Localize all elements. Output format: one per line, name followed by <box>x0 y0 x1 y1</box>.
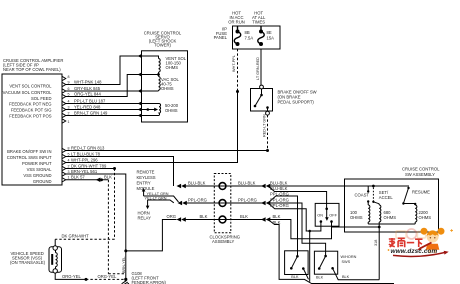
wire brake switch output <box>267 108 269 112</box>
wire ORG-YEL 844 pin5 to servo <box>66 75 142 97</box>
fuse F2 element <box>258 26 264 44</box>
switch COAST contacts <box>367 186 369 192</box>
svg-text:FEEDBACK POT POS: FEEDBACK POT POS <box>9 114 51 119</box>
pin 6 amp <box>62 89 66 93</box>
pin 9 amp <box>62 82 66 86</box>
svg-text:RESUME: RESUME <box>412 190 430 195</box>
node ground G108 junction <box>124 278 127 281</box>
connector BLK arrows right pair <box>261 217 270 222</box>
pin 5 amp lower <box>62 154 66 158</box>
svg-text:PEDAL SUPPORT): PEDAL SUPPORT) <box>278 100 315 105</box>
svg-text:3: 3 <box>68 170 70 174</box>
svg-text:OHMS: OHMS <box>161 86 174 91</box>
svg-text:WHT-PNK 148: WHT-PNK 148 <box>74 79 102 84</box>
wire LT GRN-RED fuse F2 to brake switch <box>260 49 262 85</box>
node servo coil junction <box>157 73 160 76</box>
wire BLK straight branch to left switch box <box>268 220 332 239</box>
wire resistor common rail <box>368 223 415 225</box>
node coast upper contact <box>367 190 369 192</box>
svg-text:4: 4 <box>68 158 70 162</box>
wire OFF contact link to 318 <box>332 226 380 228</box>
pin 3 amp <box>62 107 66 111</box>
label I/P fuse panel <box>214 26 228 40</box>
pin 2 amp <box>62 113 66 117</box>
wire horn contact to 318 rail <box>333 268 380 279</box>
svg-text:318: 318 <box>374 240 378 246</box>
svg-text:BLU-BLK: BLU-BLK <box>188 180 206 185</box>
resistor R3 2200 ohms <box>415 204 417 225</box>
clockspring dashed box <box>214 174 231 233</box>
svg-text:FEEDBACK POT SIG: FEEDBACK POT SIG <box>11 108 52 113</box>
servo pin pot pos <box>138 101 142 105</box>
wire servo sol feed <box>142 74 159 76</box>
svg-text:8B: 8B <box>245 30 250 35</box>
connector arrows <box>96 178 271 222</box>
node BLK connector dot <box>100 178 103 181</box>
node R3 top contact <box>414 203 416 205</box>
svg-text:RELAY: RELAY <box>138 216 152 221</box>
svg-text:PPL-LT BLU 187: PPL-LT BLU 187 <box>74 98 106 103</box>
connector rings clockspring <box>219 183 226 223</box>
svg-text:DK GRN-WHT 789: DK GRN-WHT 789 <box>71 163 107 168</box>
svg-text:OFF: OFF <box>329 214 337 218</box>
wire RKE branch YEL-LT GRN upper <box>144 191 179 202</box>
svg-text:NEAR TOP OF COWL PANEL): NEAR TOP OF COWL PANEL) <box>3 67 61 72</box>
wire ORG-YEL dashed to ground node <box>86 278 126 280</box>
wire BLK 57 ground pin1 <box>66 179 108 181</box>
amp pin numbers <box>68 75 70 179</box>
svg-text:6: 6 <box>68 87 70 91</box>
svg-text:ACCEL: ACCEL <box>379 195 394 200</box>
svg-text:POWER INPUT: POWER INPUT <box>22 161 52 166</box>
node resume lower contact <box>402 202 404 204</box>
node brake switch output contact <box>266 106 269 109</box>
connector circle brake top <box>260 85 264 89</box>
wire ground drop from ON stub line <box>309 231 311 282</box>
amp pin name labels <box>3 84 53 185</box>
wire BRN-YEL 561 vss ground <box>66 174 126 279</box>
connector ORG/BLK arrows left pair <box>177 217 186 222</box>
svg-text:15A: 15A <box>267 36 275 41</box>
node set/accel lower contact <box>372 201 374 203</box>
wire BRN-LT GRN 149 pin2 to servo <box>66 115 142 117</box>
wire GRY-BLK 845 pin6 to servo <box>66 90 142 92</box>
wire YEL-RED 848 pin3 to servo <box>66 109 142 111</box>
resistor feedback potentiometer <box>142 104 161 116</box>
svg-text:YEL-RED 848: YEL-RED 848 <box>74 104 101 109</box>
amplifier pin chevrons <box>62 76 66 182</box>
svg-text:CONTROL SWS INPUT: CONTROL SWS INPUT <box>7 155 52 160</box>
svg-text:9: 9 <box>68 80 70 84</box>
servo pin vent <box>138 54 142 58</box>
wire RED-LT GRN 813 pin8 <box>66 150 268 152</box>
wire VSS top stub <box>54 239 56 246</box>
pot wiper arrowhead <box>154 108 158 112</box>
svg-text:5: 5 <box>68 152 70 156</box>
svg-text:GROUND: GROUND <box>33 179 52 184</box>
node 318 junction <box>378 226 381 229</box>
svg-text:LT GRN-RED: LT GRN-RED <box>256 57 260 80</box>
svg-text:BLU-BLK: BLU-BLK <box>238 180 256 185</box>
node on/off feed contact <box>325 208 328 211</box>
wire PPL-ORG to clockspring <box>184 202 262 204</box>
node BRN-YEL horn branch junction <box>124 249 127 252</box>
node coast lower contact <box>367 200 369 202</box>
node VSS bottom connector <box>85 278 88 281</box>
svg-text:PPL-ORG: PPL-ORG <box>188 197 207 202</box>
inductor vacuum solenoid coil <box>159 75 161 92</box>
wire servo vac sol return <box>142 90 159 92</box>
svg-text:OHMS: OHMS <box>350 215 363 220</box>
svg-text:BLK: BLK <box>200 214 208 219</box>
node fuse F1 bottom terminal <box>236 42 240 46</box>
svg-text:LT BLU-BLK 78: LT BLU-BLK 78 <box>71 151 101 156</box>
svg-text:ORG-YEL 844: ORG-YEL 844 <box>74 91 102 96</box>
svg-text:COAST: COAST <box>355 193 370 198</box>
wire resume to R3 <box>403 203 415 205</box>
svg-text:BRN-LT GRN 149: BRN-LT GRN 149 <box>74 110 108 115</box>
node bus set/accel junction <box>372 185 375 188</box>
svg-text:OHMS: OHMS <box>384 215 397 220</box>
svg-text:SW ASSEMBLY: SW ASSEMBLY <box>405 172 435 177</box>
wire pot wiper with arrow <box>142 109 155 111</box>
brake on/off switch box <box>251 89 273 112</box>
servo pin pot wiper <box>138 107 142 111</box>
svg-text:SOL FEED: SOL FEED <box>31 96 52 101</box>
svg-text:TIMES: TIMES <box>252 20 265 25</box>
pin 1 amp <box>62 119 66 123</box>
vehicle speed sensor body <box>49 247 62 273</box>
servo box cruise control servo <box>142 51 188 122</box>
pin 8 amp <box>62 76 66 80</box>
svg-text:2: 2 <box>68 164 70 168</box>
svg-text:2: 2 <box>68 111 70 115</box>
svg-text:(ON TRANSAXLE): (ON TRANSAXLE) <box>10 260 46 265</box>
node splice BLU-BLK fan to interchange <box>268 186 327 209</box>
cruise control switch assembly box <box>345 179 439 232</box>
pin 2 amp lower <box>62 166 66 170</box>
svg-text:PANEL: PANEL <box>214 35 228 40</box>
connector PPL-ORG arrows right pair <box>261 201 270 206</box>
node pot wiper junction <box>147 108 150 111</box>
svg-text:PPL-ORG: PPL-ORG <box>270 197 289 202</box>
connector PPL-ORG arrows left pair <box>178 201 187 206</box>
connector circle VSS top <box>53 246 57 250</box>
svg-text:REMOTE: REMOTE <box>137 170 155 175</box>
connector circle VSS bottom <box>53 269 57 273</box>
pin 3 amp lower <box>62 172 66 176</box>
svg-text:FENDER APRON): FENDER APRON) <box>132 280 167 284</box>
wire YEL-LT GRN lower branch to horn relay <box>148 200 174 206</box>
node fuse F1 wire splice <box>236 90 239 93</box>
connector C1 BLU-BLK arrows left pair <box>177 184 186 189</box>
svg-text:4: 4 <box>68 99 70 103</box>
pin 8 amp lower <box>62 148 66 152</box>
svg-text:GRY-BLK 845: GRY-BLK 845 <box>74 86 101 91</box>
ground G108 symbol <box>122 279 129 284</box>
wire fuse F1 output dashed inside panel <box>237 49 239 92</box>
fuse panel header text <box>228 10 266 24</box>
inductor VSS pickup coil <box>56 250 58 269</box>
wire through ring 1 <box>219 185 226 187</box>
node OFF contact <box>330 220 333 223</box>
connector ring PPL-ORG <box>219 200 226 207</box>
arrowhead horn relay down <box>146 206 150 210</box>
svg-text:OR RUN: OR RUN <box>228 20 245 25</box>
wire left box contact to rail <box>303 269 308 280</box>
node fuse F2 bottom terminal <box>259 42 263 46</box>
I/P fuse panel box <box>233 26 281 49</box>
arrowhead ON/OFF pole down <box>325 217 329 221</box>
svg-text:YEL-LT GRN: YEL-LT GRN <box>147 192 169 196</box>
svg-text:BLK: BLK <box>104 174 112 179</box>
node DK GRN-WHT junction <box>113 167 116 170</box>
op-amp U1 cruise control amplifier box <box>2 74 62 185</box>
svg-text:PPL-ORG: PPL-ORG <box>238 197 257 202</box>
svg-text:VSS SIGNAL: VSS SIGNAL <box>27 167 53 172</box>
resistor R2 680 ohms <box>379 204 381 224</box>
arrowhead RKE up <box>142 188 146 192</box>
svg-text:8E: 8E <box>267 30 272 35</box>
svg-text:OHMS: OHMS <box>165 108 178 113</box>
node ON stub junction <box>308 230 311 233</box>
switch RESUME blade <box>403 188 408 204</box>
svg-text:RED-LT GRN: RED-LT GRN <box>262 114 266 137</box>
svg-text:BLU-BLK: BLU-BLK <box>270 186 288 191</box>
wire RED-LT GRN dashed below brake switch <box>267 115 269 151</box>
inductor vent solenoid coil <box>142 56 161 75</box>
svg-text:7.5A: 7.5A <box>245 36 254 41</box>
resistor R1 100 ohms <box>368 202 370 225</box>
switch blade left box <box>291 256 297 268</box>
svg-text:1: 1 <box>68 176 70 180</box>
node brake switch blade end <box>254 105 257 108</box>
svg-text:ORG-YEL: ORG-YEL <box>62 274 82 279</box>
node left box contact <box>302 267 305 270</box>
servo pin sol feed <box>138 72 142 76</box>
svg-text:ORG: ORG <box>167 214 177 219</box>
wire horn path ORG from ground node <box>126 220 177 251</box>
wire LT BLU-BLK 78 control sws input <box>66 157 174 187</box>
node horn contact <box>331 267 334 270</box>
svg-text:FEEDBACK POT NEG: FEEDBACK POT NEG <box>9 102 52 107</box>
wire DK GRN-WHT dashed to VSS <box>55 169 114 240</box>
svg-text:MODULE: MODULE <box>137 186 155 191</box>
watermark dzsc logo group <box>388 228 453 257</box>
servo pin pot neg <box>138 113 142 117</box>
wire PPL-ORG straight branch to ON stub <box>268 203 326 256</box>
node splice RED-LT GRN junction <box>266 149 269 152</box>
svg-text:YEL-LT GRN: YEL-LT GRN <box>145 196 167 200</box>
wire PPL-ORG upper branch to left switch blade <box>268 196 298 256</box>
node horn blade bottom <box>318 267 321 270</box>
pin 5 amp <box>62 94 66 98</box>
connector ring BLU-BLK <box>219 183 226 190</box>
node left box blade top <box>296 255 299 258</box>
wire ON/OFF feed from bus <box>326 209 328 218</box>
svg-text:ASSEMBLY: ASSEMBLY <box>212 239 234 244</box>
svg-text:KEYLESS: KEYLESS <box>137 175 156 180</box>
svg-text:VACUUM SOL CONTROL: VACUUM SOL CONTROL <box>3 90 53 95</box>
svg-text:CRUISE CONTROL: CRUISE CONTROL <box>402 167 440 172</box>
svg-text:OHMS: OHMS <box>166 65 179 70</box>
pin 1 amp lower <box>62 178 66 182</box>
svg-text:8: 8 <box>68 75 70 79</box>
svg-text:VSS GROUND: VSS GROUND <box>23 173 51 178</box>
svg-text:TOWER): TOWER) <box>154 43 172 48</box>
node left box blade bottom <box>290 267 293 270</box>
svg-text:BRAKE ON/OFF SW IN: BRAKE ON/OFF SW IN <box>7 149 51 154</box>
svg-text:5: 5 <box>68 92 70 96</box>
wire WHT-PNK 148 pin9 to servo <box>66 56 142 85</box>
switch blade horn <box>319 256 325 269</box>
svg-text:WHT-PPL: WHT-PPL <box>232 55 236 72</box>
wire PPL-ORG lower branch <box>268 203 321 231</box>
svg-text:BLK: BLK <box>273 220 281 225</box>
wire VSS bottom ORG-YEL <box>55 273 86 279</box>
svg-text:ORG-YEL: ORG-YEL <box>98 274 118 279</box>
switch blade brake on/off <box>255 95 262 106</box>
svg-text:BLK 57: BLK 57 <box>71 175 85 180</box>
wire WHT-PPL 296 power input from fuse F1 <box>66 92 238 163</box>
steering wheel switch box left <box>285 251 309 275</box>
wire through ring 3 <box>219 219 226 221</box>
svg-text:3: 3 <box>68 105 70 109</box>
svg-text:BLK: BLK <box>316 276 324 280</box>
svg-text:BLK: BLK <box>342 275 350 279</box>
wire BLK lower branch to ground rail <box>268 220 394 284</box>
svg-text:BLK: BLK <box>291 275 299 279</box>
node ON contact <box>320 220 323 223</box>
wire BLK horn to clockspring <box>184 219 262 221</box>
svg-text:RED-LT GRN 813: RED-LT GRN 813 <box>71 145 105 150</box>
pin 4 amp lower <box>62 160 66 164</box>
wire set/accel to R2 <box>373 202 379 204</box>
svg-text:SWS: SWS <box>342 260 351 264</box>
svg-text:BLU-BLK: BLU-BLK <box>270 180 288 185</box>
wire DK GRN-WHT 789 vss signal <box>66 168 115 170</box>
svg-text:ENTRY: ENTRY <box>137 181 151 186</box>
connector BLU-BLK arrows right pair <box>261 184 270 189</box>
steering wheel horn switch box right <box>314 251 337 274</box>
wire brake switch internal feed <box>261 89 263 95</box>
svg-text:OHMS: OHMS <box>419 215 432 220</box>
svg-text:DK GRN-WHT: DK GRN-WHT <box>62 234 90 239</box>
svg-text:1: 1 <box>68 120 70 124</box>
svg-text:BRN-YEL 561: BRN-YEL 561 <box>71 169 98 174</box>
node fuse F1 top terminal <box>236 30 240 34</box>
svg-text:W/HORN: W/HORN <box>341 255 357 259</box>
wire BLU-BLK to cruise sw bus <box>268 185 409 187</box>
fuse F1 element <box>234 26 240 44</box>
wire through ring 2 <box>219 202 226 204</box>
svg-text:ON: ON <box>317 214 323 218</box>
connector circle brake bottom <box>266 111 270 115</box>
svg-text:BLK: BLK <box>240 214 248 219</box>
node brake switch upper contact <box>260 94 263 97</box>
wire BLU-BLK corner to clockspring <box>184 185 262 187</box>
svg-text:BLK: BLK <box>273 214 281 219</box>
svg-text:PPL-ORG: PPL-ORG <box>270 192 289 197</box>
connector BLK inline arrow near amp <box>96 178 101 183</box>
servo title text <box>144 31 182 48</box>
svg-text:PPL-ORG: PPL-ORG <box>270 203 289 208</box>
pin 4 amp <box>62 101 66 105</box>
switch SET/ACCEL dotted blade <box>372 188 374 202</box>
wire 318 drop from rail <box>378 224 380 280</box>
wire BLK dashed ground run <box>108 180 125 274</box>
VSS core bar <box>51 254 53 265</box>
svg-text:BRN-YEL: BRN-YEL <box>122 257 126 273</box>
node resume upper contact <box>407 187 409 189</box>
svg-text:8: 8 <box>68 146 70 150</box>
svg-text:WHT-PPL 296: WHT-PPL 296 <box>71 157 98 162</box>
cruise ON/OFF switch box <box>315 203 339 226</box>
node fuse F2 top terminal <box>259 30 263 34</box>
connector ring BLK <box>219 216 226 223</box>
wire PPL-LT BLU 187 pin4 to servo <box>66 103 142 105</box>
svg-text:VENT SOL CONTROL: VENT SOL CONTROL <box>9 84 52 89</box>
svg-text:www.dzsc.com: www.dzsc.com <box>391 248 438 255</box>
servo pin vac return <box>138 89 142 93</box>
node horn blade top <box>324 255 327 258</box>
